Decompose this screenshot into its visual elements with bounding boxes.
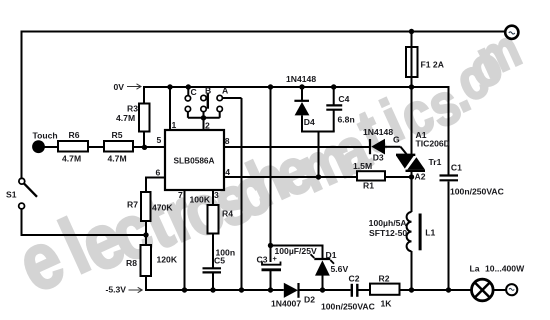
svg-text:A: A [222, 86, 228, 96]
wire 0V rail corner down to R3 [143, 86, 145, 104]
node bus/0V [268, 84, 273, 89]
wire R8 bottom to -5.3V rail corner [145, 276, 147, 291]
wire top rail down to fuse [411, 32, 413, 48]
wire D1 top vertical [322, 245, 324, 259]
wire 0V node down to triac A1 [411, 87, 413, 155]
node D1/rail [320, 287, 325, 292]
node C1/rail [446, 287, 451, 292]
capacitor C3 [257, 246, 317, 270]
node C3/rail [268, 287, 273, 292]
wire B lower contact to bus [203, 112, 205, 118]
resistor R2 [370, 274, 400, 309]
svg-text:1N4148: 1N4148 [363, 127, 393, 137]
svg-text:R4: R4 [222, 209, 233, 219]
svg-text:5: 5 [157, 135, 162, 145]
svg-text:D1: D1 [326, 250, 337, 260]
svg-text:4.7M: 4.7M [108, 154, 127, 164]
svg-text:R8: R8 [126, 258, 137, 268]
resistor R4 [208, 205, 234, 234]
svg-text:5.6V: 5.6V [331, 264, 349, 274]
node C4/0V [331, 84, 336, 89]
wire 0V rail corner down to C1 [448, 86, 450, 175]
svg-text:C2: C2 [349, 274, 360, 284]
wire A lower contact to bus [219, 112, 221, 118]
node C5/rail [210, 287, 215, 292]
wire R3 bottom to touch line [143, 132, 145, 149]
touch electrode [32, 131, 58, 154]
zener diode D1 5.6V [311, 250, 349, 276]
svg-text:R6: R6 [69, 130, 80, 140]
node 0V label [114, 82, 142, 92]
capacitor C1 [440, 163, 504, 197]
node D4/0V [299, 84, 304, 89]
diode D2 1N4007 [271, 283, 315, 309]
wire S1 horizontal to R7/R8 junction [21, 234, 147, 236]
capacitor C4 [326, 94, 354, 125]
svg-text:TIC206D: TIC206D [416, 139, 450, 149]
svg-text:100n/250VAC: 100n/250VAC [321, 302, 375, 312]
svg-text:D4: D4 [304, 117, 315, 127]
wire bottom rail R2 to lamp [400, 289, 473, 291]
svg-text:120K: 120K [157, 255, 178, 265]
wire D4 bottom to connector [301, 115, 303, 131]
wire pin 7 down to bottom rail [184, 190, 186, 290]
wire R4 bottom to C5 [212, 234, 214, 268]
wire 0V rail [144, 86, 449, 88]
svg-text:F1 2A: F1 2A [421, 60, 444, 70]
resistor R6 [58, 130, 88, 164]
wire C4 bottom to connector [333, 110, 335, 132]
wire C1 bottom to rail [448, 182, 450, 291]
svg-text:C4: C4 [338, 94, 349, 104]
wire gate diagonal into triac [401, 147, 408, 155]
wire bottom rail D2 to C2 [300, 289, 351, 291]
op-amp U1 SLB0586A [165, 130, 224, 190]
svg-text:100n/250VAC: 100n/250VAC [450, 187, 504, 197]
wire A contact to vertical A-line [223, 97, 242, 99]
wire pin 6 corner down to R7 [145, 177, 147, 193]
wire R1 right to A2 node [385, 176, 412, 178]
svg-text:100K: 100K [190, 195, 211, 205]
resistor R7 [127, 192, 173, 221]
node fuse/top rail [409, 29, 414, 34]
wire R7 bottom to junction [145, 221, 147, 235]
svg-text:0V: 0V [114, 82, 125, 92]
wire D3 cathode to pin8 line stub [385, 146, 401, 148]
svg-text:C: C [191, 87, 197, 97]
svg-text:6: 6 [156, 168, 161, 178]
svg-text:C1: C1 [451, 163, 462, 173]
node R3/touch line [142, 145, 147, 150]
svg-text:D3: D3 [373, 153, 384, 163]
svg-text:Touch: Touch [33, 131, 58, 141]
node fuse/0V [409, 84, 414, 89]
diode D3 1N4148 [363, 127, 400, 163]
wire A-line vertical down to bottom rail [241, 98, 243, 290]
node A2 [409, 174, 414, 179]
svg-text:8: 8 [225, 136, 230, 146]
selector contacts C B A [185, 86, 228, 112]
svg-text:100µh/5A: 100µh/5A [369, 218, 407, 228]
svg-text:-5.3V: -5.3V [106, 285, 127, 295]
wire through fuse [411, 47, 413, 77]
wire left vertical from top rail to S1 [21, 31, 23, 179]
svg-text:4: 4 [225, 167, 230, 177]
svg-text:La10...400W: La10...400W [470, 264, 526, 274]
wire D1 bottom to rail [322, 276, 324, 291]
svg-text:SLB0586A: SLB0586A [174, 156, 215, 166]
svg-text:1.5M: 1.5M [353, 161, 372, 171]
svg-text:4.7M: 4.7M [116, 113, 135, 123]
wire L1 bottom to rail [411, 251, 413, 290]
wire main bus from 0V rail down to C3 [270, 87, 272, 262]
wire D4-C4 bottom connector [301, 131, 335, 133]
wire bottom rail C2 to R2 [359, 289, 371, 291]
svg-text:R5: R5 [112, 130, 123, 140]
inductor L1 [369, 212, 436, 251]
wire pin 1 to 0V rail [169, 87, 171, 130]
resistor R5 [104, 130, 133, 164]
capacitor C5 [203, 248, 236, 273]
svg-text:S1: S1 [6, 190, 17, 200]
resistor R8 [126, 245, 178, 276]
wire top mains rail [21, 31, 506, 33]
wire S1 bottom to lower horizontal [21, 209, 23, 235]
svg-text:R7: R7 [127, 200, 138, 210]
svg-text:6.8n: 6.8n [338, 115, 355, 125]
wire fuse to 0V node [411, 77, 413, 87]
wire C3 bottom to rail [270, 270, 272, 290]
wire C lower contact to bus [187, 112, 189, 118]
wire pin 6 horizontal [146, 177, 165, 179]
wire connector mid down to pin4 line [318, 132, 320, 178]
capacitor C2 [321, 274, 375, 312]
node R7/R8/S1 [143, 232, 148, 237]
svg-text:1N4148: 1N4148 [286, 74, 316, 84]
svg-text:A2: A2 [415, 172, 426, 182]
wire C5 bottom to rail [212, 273, 214, 291]
wire selector bus [188, 117, 220, 119]
resistor R1 [353, 161, 385, 191]
node -5.3V label [106, 285, 143, 295]
wire triac A2 down to L1 [411, 171, 413, 212]
wire C4 top to 0V rail [333, 87, 335, 105]
wire R6 to R5 [88, 146, 104, 148]
AC source top [505, 26, 518, 39]
svg-text:3: 3 [214, 190, 219, 200]
AC source bottom [506, 284, 517, 295]
node selector bus/pin2 [201, 115, 206, 120]
svg-text:C5: C5 [214, 256, 225, 266]
wire C3 node to D1 top horizontal [271, 245, 323, 247]
wire pin 3 down to R4 [212, 190, 214, 205]
switch S1 [6, 178, 37, 209]
svg-text:470K: 470K [152, 203, 173, 213]
node D4C4/pin4 line [316, 174, 321, 179]
node A-line/rail [239, 287, 244, 292]
node L1/rail [409, 287, 414, 292]
svg-text:1: 1 [172, 120, 177, 130]
node pin1/0V [167, 84, 172, 89]
resistor R3 [116, 104, 150, 132]
wire pin 8 line to D3 [224, 146, 369, 148]
wire lamp to AC source [493, 289, 507, 291]
wire D4 top to 0V rail [301, 87, 303, 100]
wire touch dot to R6 [44, 146, 58, 148]
svg-text:1K: 1K [381, 299, 393, 309]
wire pin 4 line to R1 [224, 176, 357, 178]
wire R5 to IC pin 5 [133, 146, 165, 148]
svg-text:4.7M: 4.7M [62, 154, 81, 164]
svg-text:R3: R3 [127, 104, 138, 114]
node C-contact/0V [186, 84, 191, 89]
svg-text:1N4007: 1N4007 [271, 299, 301, 309]
svg-text:R2: R2 [379, 274, 390, 284]
svg-text:2: 2 [205, 121, 210, 131]
svg-text:R1: R1 [363, 181, 374, 191]
jumper bar at B [207, 94, 209, 109]
svg-text:C3: C3 [257, 255, 268, 265]
wire junction to R8 top [145, 235, 147, 245]
triac Tr1 TIC206D [396, 130, 450, 182]
svg-text:D2: D2 [304, 295, 315, 305]
wire bottom -5.3V rail left segment [145, 289, 284, 291]
diode D4 1N4148 [286, 74, 316, 127]
lamp La [470, 264, 526, 301]
fuse F1 [406, 47, 444, 77]
svg-text:7: 7 [178, 190, 183, 200]
wire 0V rail to C contact [187, 87, 189, 95]
node C3/D1 branch [268, 243, 273, 248]
wire pin 2 to selector bus [203, 118, 205, 130]
svg-text:SFT12-50: SFT12-50 [369, 228, 407, 238]
svg-text:Tr1: Tr1 [429, 157, 442, 167]
svg-text:L1: L1 [425, 228, 435, 238]
node pin7/rail [182, 287, 187, 292]
svg-text:G: G [393, 135, 400, 145]
